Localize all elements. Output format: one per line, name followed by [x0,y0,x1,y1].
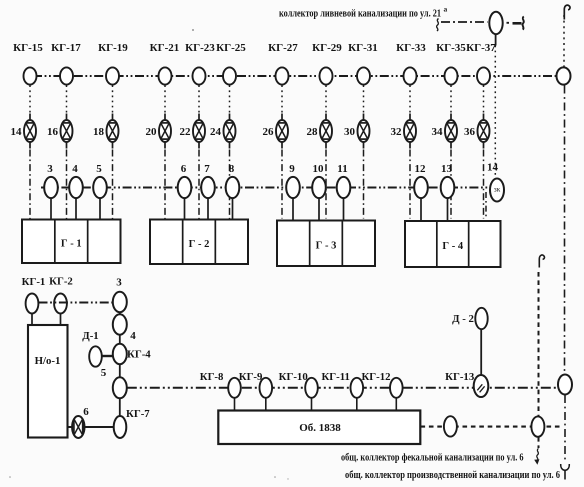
svg-text:КГ-11: КГ-11 [321,371,350,383]
svg-text:12: 12 [415,163,427,175]
wire КГ-2 stem [60,314,62,326]
arrow top of right collector [564,5,570,19]
wire dotted drop КГ-33 to valve [409,85,411,112]
svg-text:КГ-29: КГ-29 [312,42,342,54]
wire valve 6 to КГ-7 [85,426,114,428]
svg-text:КГ-21: КГ-21 [150,42,180,54]
valve 6 [72,406,89,438]
building Г-4 [405,221,501,267]
svg-text:КГ-37: КГ-37 [466,42,496,54]
svg-text:13: 13 [441,163,453,175]
valve 36 [464,114,490,149]
wire stem chamber 10 to building [318,198,320,221]
chamber 3 [44,163,58,198]
manhole КГ-15 [13,42,43,85]
manhole right collector upper [557,67,571,84]
svg-text:6: 6 [181,163,187,175]
svg-text:14: 14 [487,162,499,174]
chamber 4 [69,163,83,198]
manhole fecal 1 [444,416,457,436]
wire right collector lower dash-dot [564,395,566,462]
valve 34 [432,114,458,149]
svg-text:4: 4 [130,330,136,342]
manhole КГ-31 [348,42,378,85]
svg-text:3: 3 [116,277,122,289]
arrow bottom break of fecal vertical [534,449,539,465]
svg-text:11: 11 [337,163,347,175]
svg-text:Д-1: Д-1 [82,330,98,342]
wire drop valve 16 to building [66,150,68,219]
wire dotted drop КГ-19 to valve [112,85,114,112]
svg-text:Д - 2: Д - 2 [452,313,474,325]
wire stem chamber 9 to building [292,198,294,221]
wire dotted drop КГ-31 to valve [363,85,365,112]
wire dotted drop КГ-29 to valve [325,85,327,112]
building Г-2 [150,220,248,265]
svg-text:а: а [444,5,448,14]
svg-text:6: 6 [83,406,89,418]
wire dotted drop КГ-17 to valve [66,85,68,112]
svg-text:КГ-33: КГ-33 [396,42,426,54]
building Г-3 [277,221,375,267]
manhole КГ-23 [185,42,215,85]
wire right collector middle dash-dot [564,86,566,375]
wire Н/о-1 to valve 6 [68,426,73,428]
svg-text:коллектор ливневой канализации: коллектор ливневой канализации по ул. 21 [279,8,441,20]
svg-text:16: 16 [47,126,59,138]
svg-text:Об. 1838: Об. 1838 [299,422,341,434]
svg-text:КГ-15: КГ-15 [13,42,43,54]
svg-text:КГ-12: КГ-12 [361,371,390,383]
svg-text:32: 32 [391,126,403,138]
chamber 12 [414,163,428,198]
valve 22 [180,114,206,149]
chamber 11 [337,163,351,198]
wire dotted drop КГ-23 to valve [198,85,200,112]
chamber 10 [312,163,326,198]
svg-text:9: 9 [289,163,295,175]
svg-text:КГ-31: КГ-31 [348,42,378,54]
manhole КГ-21 [150,42,180,85]
valve 16 [47,114,73,149]
svg-text:7: 7 [204,163,210,175]
wire drop valve 20 to building [164,150,166,219]
chamber 13 [441,163,455,198]
wire chamber row 2 dash-dot-dot main [41,187,489,189]
wire right collector upper dotted [563,15,565,67]
wire dotted drop КГ-27 to valve [281,85,283,112]
wire fecal collector dashed horizontal [421,426,563,428]
wire stem chamber 13 to building [447,198,449,221]
manhole КГ-25 [216,42,246,85]
wire dotted drop КГ-37 to valve [483,85,485,112]
svg-text:34: 34 [432,126,444,138]
wire below chamber 14 [485,192,487,219]
svg-text:КГ-25: КГ-25 [216,42,246,54]
manhole Д-2 [452,308,488,329]
svg-text:36: 36 [464,126,476,138]
svg-text:26: 26 [263,126,275,138]
speck noise dots [9,29,288,480]
svg-text:Г - 1: Г - 1 [61,238,82,249]
svg-text:5: 5 [96,163,102,175]
svg-text:4: 4 [72,163,78,175]
chamber 14 pump зк [487,162,504,202]
chamber 7 [201,163,215,198]
wire drop valve 36 to building [483,150,485,219]
svg-text:КГ-4: КГ-4 [127,349,151,361]
valve 32 [391,114,417,149]
wire outlet chamber to КГ-7 [119,398,121,416]
svg-text:14: 14 [11,126,23,138]
wire drop valve 26 to building [281,150,283,219]
wire stem chamber 8 to building [232,198,234,220]
wire stem КГ-9 [265,398,267,411]
svg-text:общ. коллектор фекальной канал: общ. коллектор фекальной канализации по … [341,452,524,464]
valve 30 [344,114,370,149]
svg-text:КГ-1: КГ-1 [22,276,46,288]
svg-text:КГ-7: КГ-7 [126,408,150,420]
wire КГ-1 stem [31,314,33,326]
manhole КГ-11 [321,371,363,398]
svg-text:КГ-13: КГ-13 [445,371,475,383]
wire stem chamber 7 to building [207,198,209,220]
svg-text:22: 22 [180,126,192,138]
manhole fecal 2 [531,416,544,436]
svg-text:3: 3 [47,163,53,175]
manhole КГ-1 [22,276,46,314]
manhole КГ-35 [436,42,466,85]
building Н/о-1 [28,325,68,438]
svg-text:КГ-2: КГ-2 [49,276,73,288]
valve 20 [146,114,172,149]
svg-text:КГ-27: КГ-27 [268,42,298,54]
wire stem chamber 12 to building [420,198,422,221]
wire Д-1 to КГ-4 [102,355,113,357]
wire КГ-4 to outlet chamber [119,364,121,377]
wire dotted drop КГ-35 to valve [450,85,452,112]
manhole КГ-10 [279,371,318,398]
arrow top of fecal vertical [539,255,544,267]
wire stem chamber 4 to building [75,198,77,220]
wire stem chamber 3 to building [50,198,52,220]
valve 26 [263,114,289,149]
manhole КГ-12 [361,371,402,398]
wire Д-2 to КГ-13 [480,329,482,375]
wire drop valve 14 to building [29,150,31,219]
valve 28 [307,114,333,149]
manhole right collector lower [558,375,572,395]
svg-text:8: 8 [229,163,235,175]
chamber 6 [178,163,192,198]
chamber 3 lower [113,277,127,313]
chamber outlet 5 [113,377,127,398]
svg-text:зк: зк [494,185,501,194]
label storm collector [279,5,448,20]
label 5 [101,367,107,379]
svg-text:КГ-9: КГ-9 [239,371,263,383]
svg-text:КГ-19: КГ-19 [98,42,128,54]
manhole КГ-27 [268,42,298,85]
svg-text:КГ-23: КГ-23 [185,42,215,54]
wire manhole row 1 dash-dot-dot main [33,75,557,77]
wire stem chamber 6 to building [184,198,186,220]
chamber 8 [226,163,240,198]
manhole КГ-2 [49,276,73,314]
valve 24 [210,114,236,149]
svg-text:Г - 2: Г - 2 [189,239,210,250]
svg-text:5: 5 [101,367,107,379]
manhole storm collector junction [489,12,502,34]
manhole КГ-29 [312,42,342,85]
wire drop valve 22 to building [198,150,200,219]
wire drop valve 28 to building [325,150,327,219]
manhole КГ-19 [98,42,128,85]
wire chamber 4 to КГ-4 [119,335,121,344]
svg-text:18: 18 [93,126,105,138]
chamber 9 [286,163,300,198]
wire drop valve 34 to building [450,150,452,219]
svg-text:10: 10 [313,163,325,175]
wire dotted drop КГ-15 to valve [29,85,31,112]
manhole КГ-17 [51,42,81,85]
manhole КГ-8 [200,371,241,398]
manhole КГ-37 [466,42,496,85]
wire main collector КГ-8 line dash-dot-dot [127,387,558,389]
wire stem КГ-11 [356,398,358,411]
manhole КГ-7 [114,408,151,438]
svg-text:Г - 3: Г - 3 [316,240,337,251]
svg-text:Н/о-1: Н/о-1 [35,355,61,367]
chamber 4 lower [113,314,136,342]
wire chamber 3 to chamber 4 [119,312,121,314]
wire stem chamber 11 to building [343,198,345,221]
svg-text:общ. коллектор производственно: общ. коллектор производственной канализа… [345,469,560,481]
svg-text:30: 30 [344,126,356,138]
label industrial collector [345,469,560,481]
wire КГ-1 to chamber 3 dash-dot-dot [39,302,113,304]
wire fecal collector dashed vertical [538,272,540,448]
wire dotted drop from storm junction [494,34,496,179]
svg-text:20: 20 [146,126,158,138]
wire drop valve 30 to building [363,150,365,219]
chamber 5 [93,163,107,198]
building Об. 1838 [218,411,420,445]
wire storm collector dash-dot line [441,21,509,24]
building Г-1 [22,220,121,264]
valve 18 [93,114,119,149]
valve 14 [11,114,37,149]
wire stem КГ-8 [234,398,236,411]
wire dotted drop КГ-21 to valve [164,85,166,112]
manhole Д-1 [82,330,102,367]
wire stem chamber 5 to building [99,198,101,220]
manhole КГ-13 [445,371,488,397]
manhole КГ-4 [113,344,151,364]
wire dotted drop КГ-25 to valve [229,85,231,112]
svg-text:КГ-35: КГ-35 [436,42,466,54]
manhole КГ-9 [239,371,272,398]
manhole КГ-33 [396,42,426,85]
svg-text:КГ-8: КГ-8 [200,371,224,383]
wire drop valve 32 to building [409,150,411,219]
wire drop valve 18 to building [112,150,114,219]
arrow bottom of right collector [561,464,570,480]
wire stem КГ-12 [395,398,397,411]
wire storm collector break squiggle [437,19,439,32]
svg-text:24: 24 [210,126,222,138]
label fecal collector [341,452,524,464]
arrow storm collector outfall [513,17,524,30]
svg-text:КГ-10: КГ-10 [279,371,308,383]
svg-text:28: 28 [307,126,319,138]
wire drop valve 24 to building [229,150,231,219]
svg-text:Г - 4: Г - 4 [442,241,463,252]
svg-text:КГ-17: КГ-17 [51,42,81,54]
wire stem КГ-10 [311,398,313,411]
